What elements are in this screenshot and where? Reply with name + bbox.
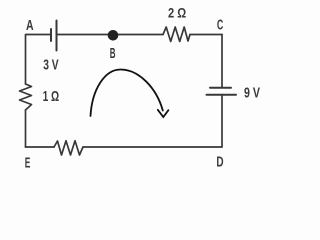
wire A to battery (top left) bbox=[26, 34, 51, 36]
battery B1 3V short plate bbox=[50, 29, 52, 41]
wire battery 9V down to corner D bbox=[221, 95, 223, 147]
wire E up to resistor 1ohm bbox=[25, 110, 27, 147]
svg-text:C: C bbox=[217, 18, 224, 34]
svg-text:A: A bbox=[26, 18, 34, 34]
svg-text:D: D bbox=[216, 155, 223, 171]
wire battery to resistor 2ohm (through node B) bbox=[58, 34, 164, 36]
resistor R3 (bottom, unlabeled) bbox=[54, 141, 83, 155]
resistor R2 1ohm bbox=[20, 84, 32, 110]
svg-text:B: B bbox=[110, 46, 116, 62]
wire C down to battery 9V bbox=[221, 35, 223, 88]
node B junction dot bbox=[108, 30, 119, 41]
resistor R1 2ohm bbox=[163, 27, 190, 42]
wire bottom resistor to corner E bbox=[26, 146, 55, 148]
battery B1 3V long plate bbox=[56, 21, 58, 51]
battery B2 9V short plate bbox=[210, 87, 231, 89]
svg-text:1 Ω: 1 Ω bbox=[43, 89, 60, 105]
wire resistor to corner C bbox=[190, 34, 222, 36]
svg-text:2 Ω: 2 Ω bbox=[168, 4, 186, 20]
svg-text:3 V: 3 V bbox=[43, 58, 59, 74]
current direction arrow (clockwise arc) bbox=[91, 70, 169, 118]
svg-text:E: E bbox=[25, 156, 31, 172]
wire D to bottom resistor bbox=[83, 146, 222, 148]
svg-text:9 V: 9 V bbox=[244, 85, 260, 101]
battery B2 9V long plate bbox=[207, 94, 237, 96]
wire 1ohm resistor up to corner A bbox=[25, 35, 27, 85]
